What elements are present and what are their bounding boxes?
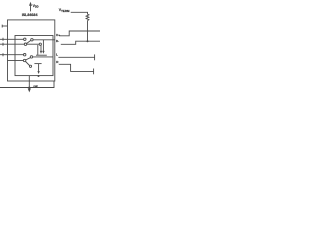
tick [2,38,4,41]
junction dot on inner box bottom [38,75,40,77]
svg-text:L: L [56,53,58,57]
shunt bar [36,54,47,56]
COM2 wire [33,56,53,58]
svg-text:D+: D+ [56,33,60,37]
shunt arrowhead [40,51,42,54]
contact circle SW2b [29,65,31,67]
IC outer box U1 [8,20,55,81]
tick [2,53,4,56]
shunt 2 arrowhead [37,71,39,74]
resistor R1 [86,14,89,20]
switch block inner box [15,36,53,76]
shunt stem 2 from COM1 [42,40,44,52]
tick [1,25,3,28]
shunt 2 bar [34,63,41,65]
L terminal bar [94,54,96,60]
NO1 contact [24,43,26,45]
NC2 contact [24,54,26,56]
D- wire [61,41,100,44]
COM1 wire [33,39,55,41]
wire NO2 input [8,60,24,62]
GND stem [28,76,30,89]
R terminal bar [93,69,95,75]
shunt 2 stem [38,64,40,73]
wire NO1 input [0,43,24,45]
R wire [59,64,94,71]
svg-text:VTERM: VTERM [59,8,70,13]
svg-text:VDD: VDD [33,4,39,9]
wire NC2 input [0,54,24,56]
junction dot on D- rail [87,40,89,42]
pole COM2 [30,56,32,58]
wire VTERM to resistor [71,12,88,14]
GND bus wire [0,81,54,88]
pole COM1 [31,39,33,41]
GND arrowhead [28,88,31,92]
svg-text:R: R [56,60,59,64]
pin stub top-left [2,25,8,27]
NO2 contact [23,59,25,61]
NO1 shunt wire [27,43,40,45]
VDD supply arrow [29,2,32,12]
shunt stem 1 [40,45,42,52]
junction dot GND bus [28,87,30,89]
shunt node circle [39,43,41,45]
tick [2,43,4,46]
switch lever SW1 [27,40,31,43]
shunt arrowhead [42,51,44,54]
NC1 contact [24,38,26,40]
shunt stem 3 [37,45,39,55]
switch lever SW2b [26,62,30,66]
L wire [58,56,94,58]
wire resistor to D- rail [87,21,89,42]
wire NC1 input [0,38,24,40]
D+ wire [59,31,100,36]
switch lever SW2 [26,58,31,60]
svg-text:D-: D- [56,39,59,43]
svg-text:ISL84684: ISL84684 [22,13,39,17]
